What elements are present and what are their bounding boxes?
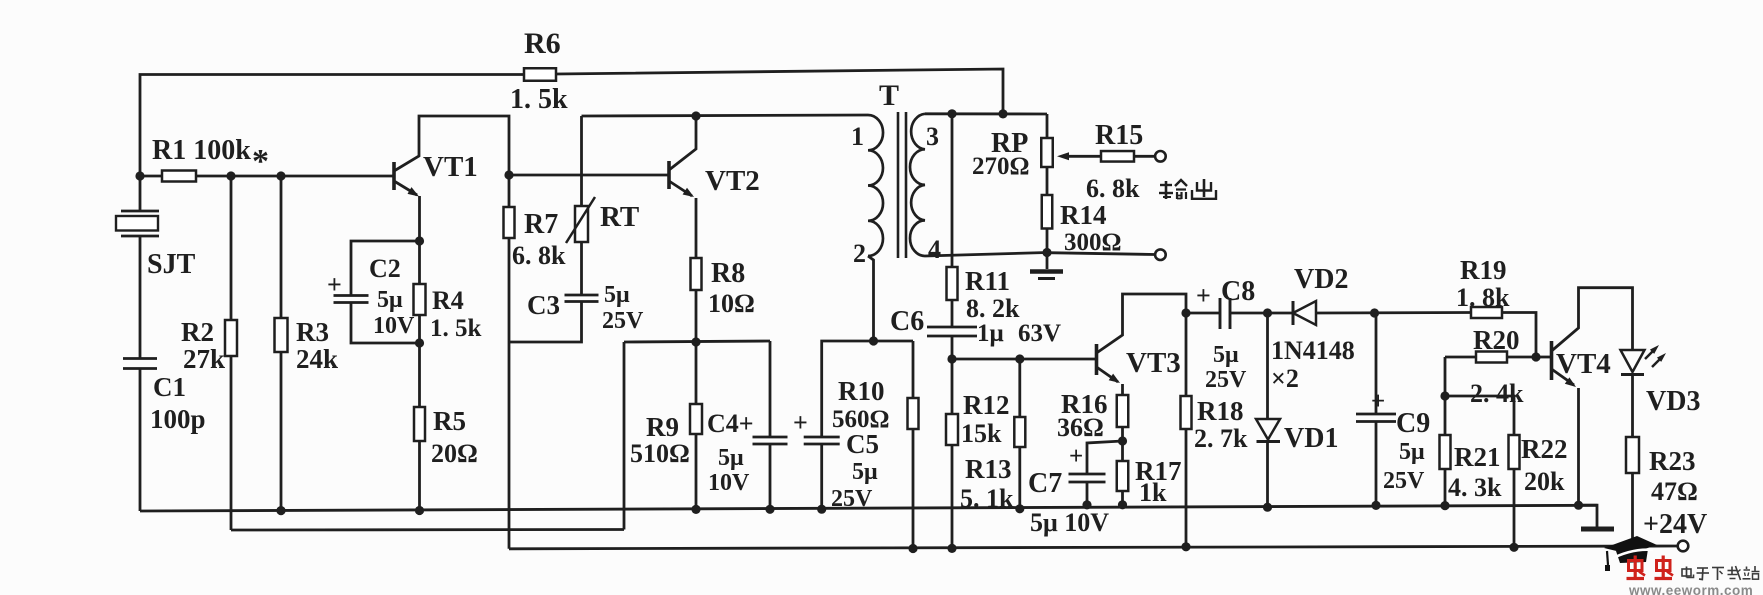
svg-text:VT4: VT4 — [1556, 348, 1611, 380]
svg-text:R14: R14 — [1060, 200, 1107, 230]
svg-text:R11: R11 — [965, 266, 1010, 296]
svg-text:VD2: VD2 — [1294, 264, 1348, 295]
svg-text:R3: R3 — [296, 317, 329, 347]
svg-text:25V: 25V — [831, 486, 873, 512]
svg-text:+: + — [793, 408, 808, 437]
svg-text:R1 100k: R1 100k — [152, 135, 251, 166]
svg-text:VT1: VT1 — [423, 151, 478, 183]
svg-text:5μ 10V: 5μ 10V — [1030, 508, 1109, 537]
svg-text:+: + — [1069, 443, 1083, 470]
svg-text:VD1: VD1 — [1284, 423, 1338, 454]
svg-text:C1: C1 — [153, 372, 186, 402]
svg-text:R6: R6 — [524, 27, 561, 60]
svg-text:R18: R18 — [1197, 396, 1244, 426]
svg-text:R19: R19 — [1460, 255, 1507, 285]
svg-text:R21: R21 — [1454, 442, 1501, 472]
svg-text:270Ω: 270Ω — [972, 153, 1030, 180]
svg-text:R15: R15 — [1095, 120, 1143, 151]
svg-text:C2: C2 — [369, 254, 401, 283]
svg-text:C5: C5 — [846, 429, 879, 459]
svg-text:R10: R10 — [838, 376, 885, 406]
svg-text:25V: 25V — [1205, 367, 1247, 393]
svg-text:R8: R8 — [711, 258, 745, 289]
svg-text:×2: ×2 — [1271, 364, 1299, 393]
svg-text:36Ω: 36Ω — [1057, 413, 1104, 442]
svg-text:C9: C9 — [1396, 408, 1430, 439]
svg-text:10V: 10V — [708, 470, 750, 496]
svg-text:2. 4k: 2. 4k — [1470, 379, 1524, 408]
svg-text:4. 3k: 4. 3k — [1448, 473, 1502, 502]
svg-text:SJT: SJT — [147, 249, 196, 280]
svg-text:C6: C6 — [890, 306, 924, 337]
svg-text:www.eeworm.com: www.eeworm.com — [1628, 583, 1753, 595]
svg-text:5. 1k: 5. 1k — [960, 484, 1014, 513]
svg-text:15k: 15k — [961, 419, 1002, 448]
svg-text:2. 7k: 2. 7k — [1194, 424, 1248, 453]
svg-text:T: T — [879, 79, 899, 112]
svg-text:1N4148: 1N4148 — [1271, 336, 1355, 365]
svg-text:*: * — [252, 143, 269, 180]
svg-text:1. 5k: 1. 5k — [430, 315, 482, 342]
svg-text:3: 3 — [926, 122, 939, 151]
svg-text:+: + — [1371, 388, 1385, 415]
svg-text:+: + — [1196, 281, 1211, 310]
svg-text:1. 8k: 1. 8k — [1456, 283, 1510, 312]
svg-text:5μ: 5μ — [1399, 439, 1425, 465]
svg-text:2: 2 — [853, 239, 866, 268]
svg-text:+: + — [327, 270, 342, 299]
svg-text:R2: R2 — [181, 317, 214, 347]
svg-text:6. 8k: 6. 8k — [1086, 174, 1140, 203]
svg-text:R5: R5 — [433, 406, 466, 436]
svg-text:+24V: +24V — [1643, 509, 1707, 540]
svg-text:20Ω: 20Ω — [431, 439, 478, 468]
svg-text:63V: 63V — [1018, 320, 1061, 347]
svg-text:RT: RT — [600, 201, 639, 233]
svg-text:R4: R4 — [432, 286, 464, 315]
svg-text:C7: C7 — [1028, 468, 1062, 499]
svg-text:VT2: VT2 — [705, 165, 760, 197]
svg-text:4: 4 — [928, 235, 941, 264]
svg-text:5μ: 5μ — [377, 287, 403, 313]
svg-text:25V: 25V — [1383, 468, 1425, 494]
svg-text:1k: 1k — [1139, 478, 1167, 507]
svg-text:R22: R22 — [1521, 434, 1568, 464]
svg-text:100p: 100p — [150, 404, 206, 434]
svg-text:510Ω: 510Ω — [630, 439, 690, 468]
svg-text:20k: 20k — [1524, 467, 1565, 496]
svg-text:R13: R13 — [965, 454, 1012, 484]
svg-text:VD3: VD3 — [1646, 386, 1700, 417]
svg-text:5μ: 5μ — [718, 445, 744, 471]
svg-text:VT3: VT3 — [1126, 347, 1181, 379]
svg-text:5μ: 5μ — [852, 459, 878, 485]
svg-text:R7: R7 — [524, 209, 558, 240]
svg-text:5μ: 5μ — [604, 282, 630, 308]
svg-text:5μ: 5μ — [1213, 342, 1239, 368]
svg-text:27k: 27k — [183, 344, 225, 374]
svg-text:1μ: 1μ — [977, 320, 1004, 347]
svg-text:1: 1 — [851, 122, 864, 151]
svg-text:C8: C8 — [1221, 276, 1255, 307]
svg-text:10Ω: 10Ω — [708, 289, 755, 318]
svg-text:C4+: C4+ — [707, 409, 754, 438]
svg-text:1. 5k: 1. 5k — [510, 84, 568, 115]
svg-text:R9: R9 — [646, 412, 679, 442]
svg-text:560Ω: 560Ω — [832, 406, 890, 433]
svg-text:25V: 25V — [602, 308, 644, 334]
svg-text:R23: R23 — [1649, 446, 1696, 476]
svg-text:R12: R12 — [963, 390, 1010, 420]
svg-text:47Ω: 47Ω — [1651, 477, 1698, 506]
svg-text:10V: 10V — [373, 313, 415, 339]
svg-text:6. 8k: 6. 8k — [512, 241, 566, 270]
svg-text:R20: R20 — [1473, 325, 1520, 355]
svg-text:8. 2k: 8. 2k — [966, 294, 1020, 323]
svg-text:C3: C3 — [527, 290, 560, 320]
svg-text:24k: 24k — [296, 344, 338, 374]
